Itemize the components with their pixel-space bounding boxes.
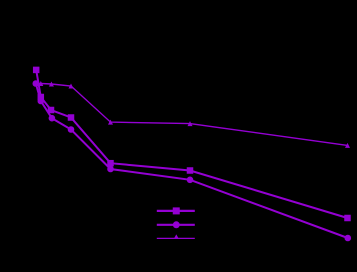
series C circle markers bbox=[33, 80, 352, 241]
series T (triangle markers) line bbox=[36, 84, 348, 146]
series T triangle markers bbox=[33, 81, 350, 148]
series S (square markers) line bbox=[36, 70, 347, 218]
series C (circle markers) line bbox=[36, 84, 348, 239]
series S square markers bbox=[33, 67, 351, 222]
legend entry 3: triangle series bbox=[157, 234, 195, 239]
legend entry 2: circle series bbox=[157, 221, 195, 228]
legend entry 1: square series bbox=[157, 207, 195, 214]
